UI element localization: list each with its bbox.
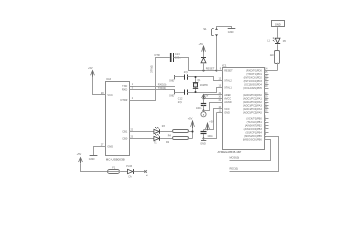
svg-text:27p: 27p <box>184 71 189 74</box>
svg-text:+5V: +5V <box>199 42 204 46</box>
svg-text:(ADC4/PC4)PA4: (ADC4/PC4)PA4 <box>243 107 262 111</box>
svg-text:GND: GND <box>169 80 174 82</box>
svg-text:RXD: RXD <box>122 88 128 92</box>
svg-text:1k0: 1k0 <box>270 54 275 57</box>
svg-text:(XCK/T0)PB0: (XCK/T0)PB0 <box>246 117 262 121</box>
svg-text:AGND: AGND <box>224 100 232 104</box>
svg-text:+5V: +5V <box>77 152 82 156</box>
svg-text:REC(0): REC(0) <box>230 167 239 171</box>
svg-text:(AIN0/INT)PB2: (AIN0/INT)PB2 <box>245 124 263 128</box>
svg-text:AVCC: AVCC <box>224 97 231 101</box>
svg-text:TXD: TXD <box>122 84 127 88</box>
svg-text:(ADC0/PC0)PA0: (ADC0/PC0)PA0 <box>243 93 262 97</box>
svg-text:S1: S1 <box>203 27 207 31</box>
svg-text:(OC1B/SS)PD4: (OC1B/SS)PD4 <box>244 83 262 87</box>
svg-text:+5V: +5V <box>188 116 193 120</box>
svg-text:+5V: +5V <box>88 66 93 70</box>
svg-text:GND: GND <box>275 23 281 27</box>
svg-text:VCC: VCC <box>224 107 230 111</box>
svg-text:(T1/CLK)PB1: (T1/CLK)PB1 <box>247 120 263 124</box>
svg-text:100n: 100n <box>207 135 213 138</box>
svg-text:(INT0/XCK)PD2: (INT0/XCK)PD2 <box>244 76 263 80</box>
svg-text:CB1: CB1 <box>122 130 128 134</box>
svg-text:MC-USB003B: MC-USB003B <box>106 157 125 161</box>
svg-text:(ADC3/PC3)PA3: (ADC3/PC3)PA3 <box>243 104 262 108</box>
svg-text:(RXD/T0)PD0: (RXD/T0)PD0 <box>246 69 262 73</box>
svg-text:(ADC5/PC5)PA5: (ADC5/PC5)PA5 <box>243 111 262 115</box>
svg-text:GND: GND <box>107 145 113 149</box>
svg-text:TXD(0): TXD(0) <box>158 86 166 90</box>
svg-text:IC1: IC1 <box>222 63 227 67</box>
svg-text:GND: GND <box>200 143 206 146</box>
svg-text:(OC1A/AIN)PD5: (OC1A/AIN)PD5 <box>243 86 262 90</box>
svg-text:(INT1/OC2)PD3: (INT1/OC2)PD3 <box>244 79 263 83</box>
svg-text:MOSI(0): MOSI(0) <box>230 155 240 159</box>
svg-text:ATMEGA8535-16P: ATMEGA8535-16P <box>218 150 242 154</box>
svg-text:(TXD/T1)PD1: (TXD/T1)PD1 <box>246 72 262 76</box>
svg-text:(MOSI/OC)PB5: (MOSI/OC)PB5 <box>244 134 262 138</box>
svg-text:27p: 27p <box>178 101 183 104</box>
svg-text:(SS/ICP1)PB4: (SS/ICP1)PB4 <box>246 131 263 135</box>
svg-text:100n: 100n <box>196 107 202 110</box>
svg-text:GND: GND <box>228 30 234 34</box>
svg-text:XTAL1: XTAL1 <box>224 86 232 90</box>
svg-text:XTAL2: XTAL2 <box>224 79 232 83</box>
svg-text:GND: GND <box>169 95 174 97</box>
svg-text:RXD(0): RXD(0) <box>158 82 167 86</box>
svg-text:(AIN1/OC0)PB3: (AIN1/OC0)PB3 <box>244 127 263 131</box>
svg-text:(ADC2/PC2)PA2: (ADC2/PC2)PA2 <box>243 100 262 104</box>
svg-text:(MISO/SCK)PB6: (MISO/SCK)PB6 <box>243 138 263 142</box>
svg-text:VCC: VCC <box>107 93 113 97</box>
svg-text:16MHz: 16MHz <box>200 83 209 87</box>
svg-text:RESET: RESET <box>224 69 233 73</box>
svg-text:(ADC1/PC1)PA1: (ADC1/PC1)PA1 <box>243 97 262 101</box>
svg-text:DTR(0): DTR(0) <box>151 65 154 73</box>
svg-text:RESET: RESET <box>206 66 215 70</box>
svg-text:GND: GND <box>224 111 230 115</box>
svg-text:+5V: +5V <box>209 121 214 124</box>
svg-text:PU-B: PU-B <box>126 165 132 168</box>
svg-text:IC2: IC2 <box>107 77 112 81</box>
svg-text:DTR#: DTR# <box>121 98 128 102</box>
svg-text:GND: GND <box>89 157 95 161</box>
svg-text:DTR: DTR <box>155 53 160 57</box>
svg-text:AREF: AREF <box>224 93 231 97</box>
svg-text:CB0: CB0 <box>122 137 128 141</box>
svg-text:5V: 5V <box>205 95 208 98</box>
svg-text:CA: CA <box>128 175 132 178</box>
